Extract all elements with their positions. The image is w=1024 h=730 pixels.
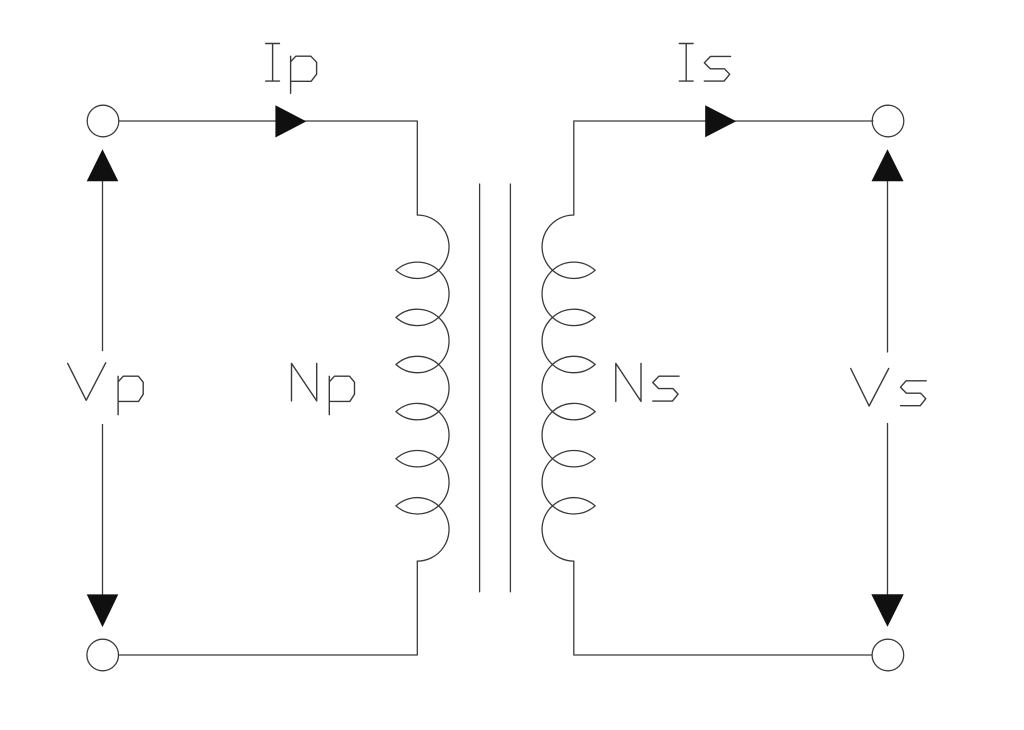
inductor Np primary winding — [396, 215, 449, 561]
inductor Ns secondary winding — [542, 215, 595, 561]
wire Vp arrow shaft upper — [102, 181, 104, 350]
current arrow Is — [705, 105, 736, 137]
voltage arrowhead Vs up — [872, 149, 904, 181]
wire top-left horizontal and primary top lead — [119, 121, 417, 215]
terminal circle top-left — [87, 105, 119, 137]
wire top-right horizontal and secondary top lead — [574, 121, 873, 215]
transformer core line right — [509, 184, 511, 592]
voltage arrowhead Vp down — [87, 594, 119, 627]
wire primary bottom lead and bottom-left horizontal — [119, 561, 418, 655]
label Vp — [68, 363, 144, 415]
label Ip — [266, 44, 317, 94]
voltage arrowhead Vs down — [871, 594, 903, 626]
current arrow Ip — [275, 105, 306, 137]
label Vs — [851, 369, 927, 407]
terminal circle top-right — [872, 105, 904, 137]
label Is — [679, 44, 730, 82]
voltage arrowhead Vp up — [87, 149, 119, 181]
wire Vs arrow shaft upper — [887, 181, 889, 352]
wire Vs arrow shaft lower — [887, 424, 889, 595]
label Ns — [616, 363, 679, 401]
label Np — [292, 363, 355, 414]
terminal circle bottom-right — [872, 639, 904, 671]
wire secondary bottom lead and bottom-right horizontal — [574, 561, 872, 655]
wire Vp arrow shaft lower — [102, 425, 104, 595]
transformer core line left — [479, 184, 481, 592]
terminal circle bottom-left — [87, 639, 119, 671]
